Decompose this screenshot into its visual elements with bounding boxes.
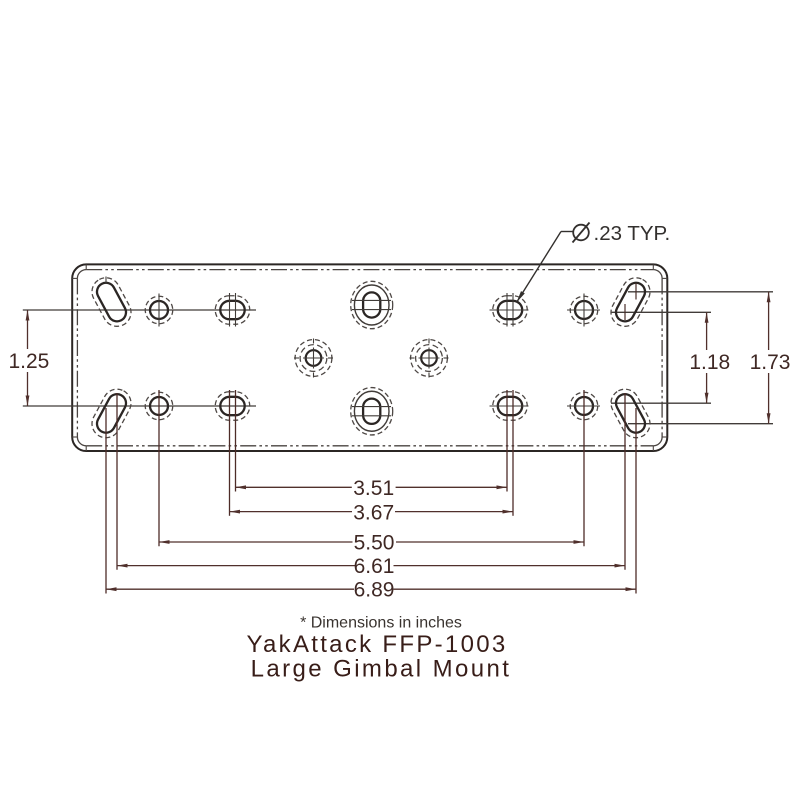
- svg-text:3.67: 3.67: [353, 502, 394, 525]
- dimension 1.73: [768, 292, 770, 424]
- dimension 1.18: [706, 312, 708, 403]
- svg-text:6.89: 6.89: [354, 579, 395, 602]
- slot hole bottom-left: [87, 384, 136, 442]
- oval hole top-right-B2: [490, 293, 529, 327]
- bottom row centerline (left): [23, 405, 256, 407]
- dimension 6.89: [106, 588, 636, 590]
- extension line 1.73 top: [628, 291, 773, 293]
- svg-text:1.25: 1.25: [8, 350, 49, 373]
- plate inner hidden edge (dashed straights): [77, 270, 662, 446]
- leader line for .23 TYP callout: [517, 232, 562, 303]
- slot top end vertical ticks: [105, 277, 107, 284]
- svg-text:3.51: 3.51: [353, 477, 394, 500]
- plate outline: [72, 264, 667, 451]
- round hole bottom-right-A4: [567, 392, 600, 420]
- center vertical oval bottom-V2: [351, 388, 393, 435]
- svg-text:1.18: 1.18: [689, 351, 730, 374]
- vertical extension lines to bottom dimensions: [106, 390, 636, 594]
- dimension 6.61: [117, 565, 625, 567]
- middle hole M1: [294, 339, 333, 378]
- round hole top-right-A2: [567, 294, 600, 327]
- round hole bottom-left-A3: [145, 392, 173, 420]
- svg-text:* Dimensions in inches: * Dimensions in inches: [300, 615, 462, 632]
- extension line 1.18 top: [611, 311, 711, 313]
- svg-text:Large Gimbal Mount: Large Gimbal Mount: [251, 656, 512, 683]
- svg-text:6.61: 6.61: [354, 555, 395, 578]
- round hole top-left-A1: [145, 294, 173, 327]
- oval hole bottom-right-B4: [490, 392, 529, 421]
- center vertical oval top-V1: [351, 281, 393, 328]
- svg-text:1.73: 1.73: [750, 351, 791, 374]
- slot hole bottom-right: [606, 384, 655, 442]
- middle hole M2: [410, 339, 449, 378]
- slot hole top-left: [87, 273, 136, 331]
- svg-text:5.50: 5.50: [354, 532, 395, 555]
- dimension 5.50: [159, 541, 584, 543]
- svg-text:.23 TYP.: .23 TYP.: [594, 222, 671, 245]
- dimension 3.67: [230, 511, 514, 513]
- diameter symbol: [573, 225, 589, 241]
- extension line 1.18 bottom: [611, 402, 711, 404]
- svg-text:YakAttack FFP-1003: YakAttack FFP-1003: [246, 631, 507, 658]
- plate inner hidden edge corner arcs: [77, 270, 662, 446]
- dimension 1.25: [27, 310, 29, 406]
- extension line 1.73 bottom: [628, 423, 773, 425]
- corner tangent ticks: [72, 264, 667, 451]
- slot hole top-right: [606, 273, 655, 331]
- top row centerline (left): [23, 309, 256, 311]
- dimension 3.51: [236, 486, 508, 488]
- oval hole top-left-B1: [215, 293, 250, 327]
- oval hole bottom-left-B3: [215, 392, 250, 421]
